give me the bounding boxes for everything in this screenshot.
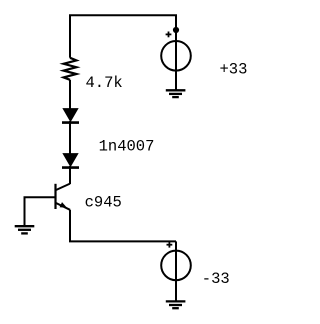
- voltage source V1 +33: [161, 30, 191, 90]
- ground at V1: [166, 90, 186, 97]
- svg-text:+33: +33: [220, 61, 248, 79]
- diode D2: [62, 154, 79, 168]
- wire D1 to D2: [69, 121, 71, 155]
- label -33: [202, 270, 230, 288]
- svg-text:4.7k: 4.7k: [86, 74, 123, 92]
- transistor Q1 c945: [56, 184, 71, 210]
- label 1n4007: [99, 138, 155, 156]
- wire D2 to Q1 collector: [69, 166, 71, 184]
- voltage source V2 -33: [161, 241, 191, 301]
- svg-text:c945: c945: [85, 193, 122, 211]
- polarity + mark of V1: [166, 32, 172, 38]
- wire resistor to D1: [69, 80, 71, 110]
- polarity + mark of V2: [167, 242, 173, 248]
- label c945: [85, 193, 122, 211]
- ground at V2: [166, 301, 186, 308]
- wire base to ground: [25, 197, 56, 225]
- label +33: [220, 61, 248, 79]
- ground at Q1 base: [15, 226, 35, 233]
- label 4.7k: [86, 74, 123, 92]
- wire top rail from resistor to V1: [70, 15, 176, 58]
- wire emitter to V2: [70, 210, 176, 242]
- diode D1: [62, 109, 79, 123]
- svg-text:-33: -33: [202, 270, 230, 288]
- node junction dot at V1 plus terminal: [173, 27, 179, 33]
- resistor R1 4.7k: [64, 58, 77, 80]
- svg-text:1n4007: 1n4007: [99, 138, 155, 156]
